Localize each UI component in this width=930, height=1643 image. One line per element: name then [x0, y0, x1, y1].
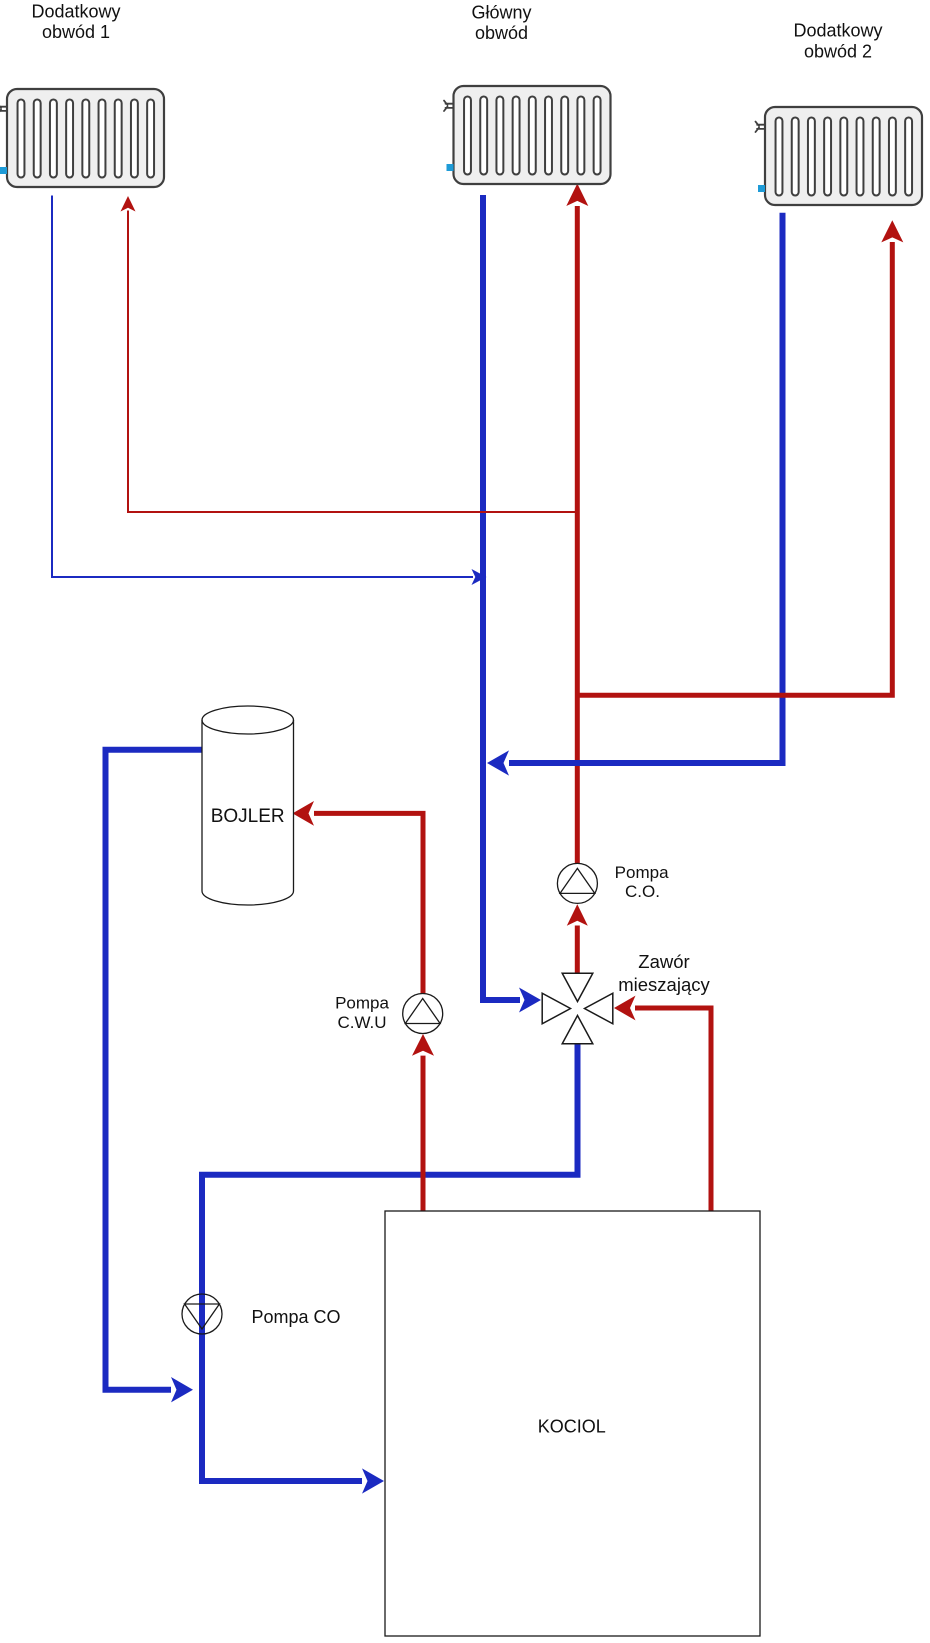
svg-text:C.O.: C.O.	[625, 882, 660, 901]
svg-text:mieszający: mieszający	[618, 974, 710, 995]
svg-text:obwód: obwód	[475, 23, 528, 43]
svg-text:Zawór: Zawór	[638, 951, 689, 972]
svg-text:Pompa CO: Pompa CO	[251, 1307, 340, 1327]
svg-text:KOCIOL: KOCIOL	[538, 1416, 606, 1436]
svg-text:Główny: Główny	[471, 3, 531, 23]
svg-text:Dodatkowy: Dodatkowy	[31, 2, 120, 22]
svg-text:C.W.U: C.W.U	[337, 1013, 386, 1032]
svg-text:obwód 2: obwód 2	[804, 41, 872, 61]
svg-text:obwód 1: obwód 1	[42, 22, 110, 42]
svg-text:Pompa: Pompa	[335, 994, 389, 1013]
svg-text:Pompa: Pompa	[615, 863, 669, 882]
svg-text:Dodatkowy: Dodatkowy	[793, 21, 882, 41]
svg-text:BOJLER: BOJLER	[211, 806, 285, 827]
